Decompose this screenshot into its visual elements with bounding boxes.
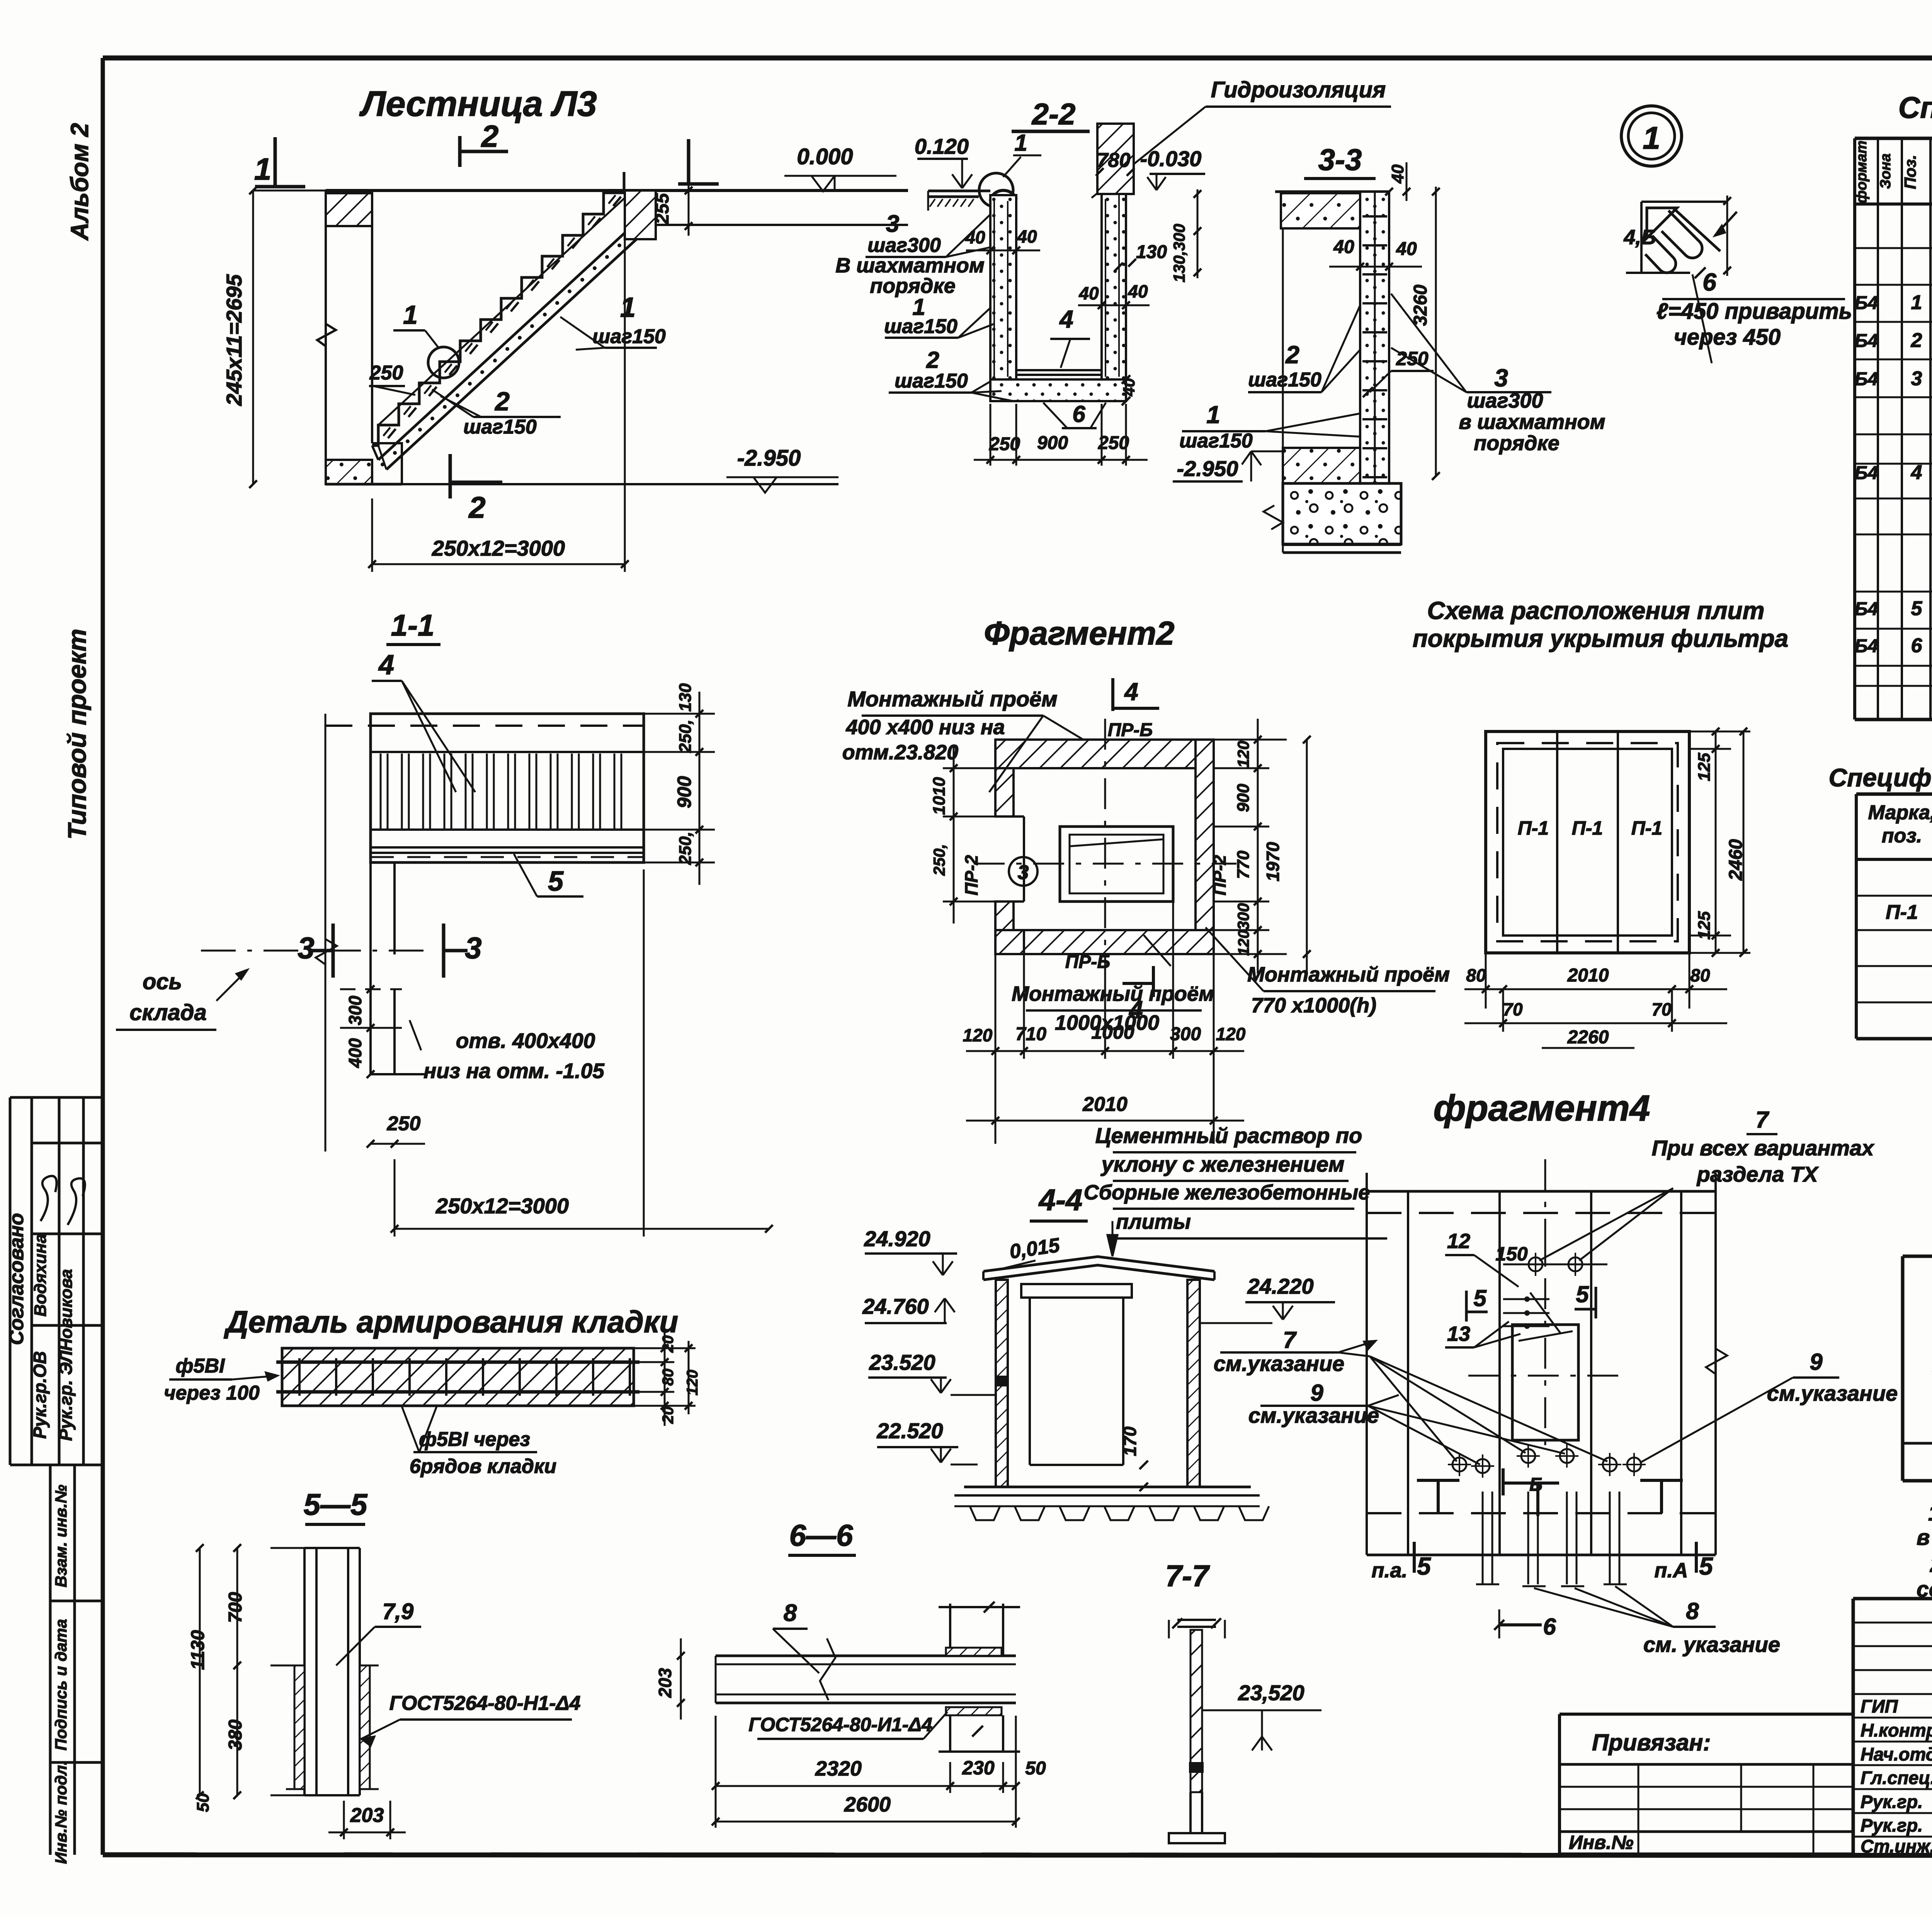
svg-text:6: 6: [1072, 401, 1085, 427]
svg-text:2260: 2260: [1567, 1027, 1609, 1048]
stair: label 1 шаг150 right: [560, 292, 666, 350]
stair: label 2 шаг150: [432, 387, 561, 438]
svg-text:230: 230: [962, 1757, 995, 1779]
stair: label 1 with detail circle: [393, 300, 459, 378]
svg-text:В шахматном: В шахматном: [835, 254, 985, 277]
masonry detail: right dims 20 80 120 20: [634, 1329, 701, 1426]
svg-text:фрагмент4: фрагмент4: [1433, 1088, 1650, 1129]
section 2-2: existing slab hatch top right: [1097, 124, 1134, 194]
svg-text:13: 13: [1447, 1322, 1470, 1345]
svg-text:П-1: П-1: [1572, 817, 1603, 839]
section 3-3 title: [1304, 143, 1376, 179]
svg-text:Рук.гр.: Рук.гр.: [1861, 1815, 1923, 1835]
svg-text:7: 7: [1755, 1107, 1769, 1133]
svg-text:ПР-2: ПР-2: [961, 855, 981, 895]
svg-text:40: 40: [1078, 283, 1099, 303]
svg-text:4-4: 4-4: [1038, 1183, 1083, 1217]
svg-text:5: 5: [1576, 1281, 1589, 1307]
svg-text:шаг150: шаг150: [592, 325, 666, 348]
fragment4: leader fan from label 7: [1338, 1352, 1607, 1461]
section 1-1: bottom dim 250x12=3000: [391, 869, 773, 1237]
svg-text:ф5ВI через: ф5ВI через: [419, 1428, 530, 1451]
svg-text:ось: ось: [143, 969, 182, 994]
svg-text:см.указание: см.указание: [1767, 1381, 1898, 1405]
svg-text:125: 125: [1695, 753, 1714, 781]
detail node 1: labels: [1623, 226, 1852, 363]
svg-text:5: 5: [548, 866, 564, 897]
stair: bottom section mark 2: [450, 454, 502, 524]
svg-text:300: 300: [1170, 1024, 1201, 1044]
section 4-4: label 7 см.указание: [1214, 1327, 1376, 1376]
stair: ground hatch bottom left: [326, 443, 402, 484]
section 1-1: ось склада label: [116, 969, 247, 1030]
svg-text:отв. 400x400: отв. 400x400: [456, 1029, 595, 1053]
svg-text:80: 80: [1466, 965, 1486, 985]
svg-text:24.760: 24.760: [862, 1294, 929, 1318]
svg-text:в соответствии с чертежАми: в соответствии с чертежАми раздела ЭЛ.: [1917, 1525, 1932, 1550]
svg-text:Рук.гр.: Рук.гр.: [1861, 1791, 1923, 1812]
masonry detail: label ф5ВI через 6рядов кладки: [402, 1407, 556, 1478]
section 2-2: dim 780 + level -0.030: [1096, 146, 1205, 190]
svg-text:Инв.№ подл.: Инв.№ подл.: [52, 1761, 70, 1864]
svg-text:Водяхина: Водяхина: [31, 1234, 50, 1317]
svg-text:3: 3: [1494, 364, 1508, 392]
svg-text:плиты: плиты: [1116, 1210, 1191, 1233]
section 2-2: label 4: [1050, 305, 1090, 368]
svg-text:5: 5: [1911, 597, 1923, 620]
svg-text:Монтажный проём: Монтажный проём: [1247, 963, 1450, 986]
svg-text:900: 900: [1037, 433, 1068, 453]
section 3-3: dim 250: [1363, 348, 1434, 397]
svg-text:3: 3: [886, 211, 899, 237]
stair steps: [372, 172, 624, 446]
svg-text:6: 6: [1911, 634, 1923, 657]
svg-text:120: 120: [1234, 741, 1252, 768]
plate layout plan: [1486, 731, 1689, 953]
spec table 2 contents: [1886, 899, 1932, 1033]
section 3-3: label 3 шаг300 в шахматном порядке: [1391, 294, 1605, 455]
svg-text:отм.23.820: отм.23.820: [842, 741, 958, 764]
svg-text:см. указание: см. указание: [1643, 1632, 1780, 1657]
svg-text:1000: 1000: [1091, 1021, 1134, 1043]
svg-text:700: 700: [225, 1592, 246, 1623]
detail node 1: circle: [1621, 106, 1682, 166]
svg-text:2: 2: [494, 387, 510, 416]
svg-text:шаг150: шаг150: [884, 315, 957, 338]
stair: thin slab top line: [378, 198, 625, 425]
svg-text:Цементный раствор по: Цементный раствор по: [1095, 1123, 1362, 1148]
svg-text:250,: 250,: [676, 720, 695, 753]
stair elevation: left wall: [317, 191, 372, 484]
svg-text:п.А: п.А: [1655, 1559, 1688, 1582]
door lintel: [1021, 1284, 1132, 1298]
svg-text:см.указание: см.указание: [1214, 1351, 1344, 1376]
fragment4: label 9 см.указание right: [1640, 1349, 1898, 1463]
svg-text:Деталь армирования кладки: Деталь армирования кладки: [224, 1305, 678, 1339]
svg-text:3: 3: [298, 931, 314, 965]
svg-text:ГИП: ГИП: [1861, 1696, 1898, 1716]
svg-text:8: 8: [1686, 1598, 1699, 1624]
stair elevation: section mark 1 (top left): [254, 137, 305, 187]
svg-text:24.220: 24.220: [1247, 1274, 1313, 1298]
fragment2: section mark 4 top: [1113, 678, 1159, 711]
svg-text:3260: 3260: [1410, 284, 1431, 326]
svg-text:ГОСТ5264-80-И1-Δ4: ГОСТ5264-80-И1-Δ4: [748, 1714, 932, 1735]
stair: dim 255 right: [652, 184, 692, 236]
svg-text:250: 250: [369, 362, 403, 384]
svg-text:770: 770: [1234, 850, 1253, 879]
svg-text:4,Б: 4,Б: [1623, 226, 1656, 249]
section 3-3: dim 40 top: [1385, 162, 1410, 201]
svg-text:0.000: 0.000: [797, 144, 853, 169]
svg-text:120: 120: [1235, 930, 1252, 956]
svg-text:22.520: 22.520: [876, 1419, 943, 1443]
fragment4: bottom anchor stems: [1476, 1492, 1627, 1586]
svg-text:Взам. инв.№: Взам. инв.№: [52, 1485, 70, 1587]
section 2-2: bottom dots + label 6: [1043, 401, 1106, 428]
section 4-4 title: [1030, 1183, 1088, 1221]
spec table 1 contents: [1855, 218, 1932, 716]
fragment4: small rebar marks near 5: [1503, 1293, 1561, 1334]
section 2-2: dims 40 40 right wall + 130 + 130,300: [1078, 189, 1201, 309]
svg-text:Поз.: Поз.: [1901, 155, 1919, 189]
svg-text:П-1: П-1: [1631, 817, 1662, 839]
svg-text:Схема расположения плит: Схема расположения плит: [1427, 597, 1764, 624]
svg-text:4: 4: [1911, 461, 1922, 484]
detail node 1: corner angle with rebar hooks: [1626, 196, 1737, 276]
svg-text:покрытия укрытия фильтра: покрытия укрытия фильтра: [1413, 624, 1789, 652]
svg-text:Б4: Б4: [1855, 369, 1878, 390]
fragment4: label при всех вариантах раздела ТХ: [1539, 1107, 1875, 1260]
svg-text:80: 80: [660, 1369, 677, 1386]
svg-text:1: 1: [1014, 130, 1027, 156]
svg-text:203: 203: [655, 1668, 675, 1698]
svg-text:Нач.отд.: Нач.отд.: [1861, 1744, 1932, 1764]
section 2-2: label 1 + leader: [1003, 130, 1041, 177]
svg-text:Типовой проект: Типовой проект: [63, 629, 91, 840]
svg-text:710: 710: [1015, 1024, 1046, 1044]
svg-text:300: 300: [345, 995, 365, 1025]
svg-text:23.520: 23.520: [869, 1350, 935, 1374]
svg-text:2.Спецификацию на трубы поз.7,: 2.Спецификацию на трубы поз.7,8,9 см.л.1…: [1930, 1552, 1932, 1577]
fragment2: монтажный проём 770x1000(h) label right: [1206, 927, 1450, 1017]
section 1-1: dim 250 bottom: [367, 1112, 425, 1148]
svg-text:шаг150: шаг150: [1179, 430, 1253, 452]
dim line right: [1726, 196, 1728, 276]
section 5-5: column plan: [286, 1548, 379, 1795]
svg-text:20: 20: [660, 1335, 677, 1353]
section 7-7: column: [1169, 1618, 1225, 1843]
section 5-5 title: [304, 1487, 368, 1524]
svg-text:130,300: 130,300: [1170, 224, 1188, 282]
fragment2: bottom dims 120 710 1000 300 120: [963, 902, 1246, 1144]
section 2-2 title: [1012, 97, 1090, 131]
table: Привязан: [1560, 1714, 1853, 1854]
svg-text:Б4: Б4: [1855, 331, 1878, 351]
section 2-2: dim 40 bottom right: [1120, 375, 1138, 405]
svg-text:Фрагмент2: Фрагмент2: [984, 615, 1174, 652]
svg-text:Рук.гр. ЭЛ: Рук.гр. ЭЛ: [56, 1350, 76, 1441]
svg-text:5: 5: [1473, 1285, 1487, 1311]
svg-text:23,520: 23,520: [1238, 1681, 1304, 1705]
svg-text:12: 12: [1447, 1230, 1470, 1253]
svg-text:Спецификацияк схеме расположе: Спецификацияк схеме расположения укрытия…: [1828, 763, 1932, 792]
section 6-6: beam: [716, 1638, 1016, 1703]
svg-text:70: 70: [1503, 999, 1523, 1019]
fragment4: plan outline: [1367, 1173, 1716, 1555]
svg-text:250: 250: [1098, 433, 1129, 453]
svg-text:300: 300: [1234, 903, 1252, 930]
svg-text:6: 6: [1702, 268, 1716, 296]
svg-text:Альбом 2: Альбом 2: [66, 123, 94, 241]
section 1-1: dims 300 400 + отв label: [340, 985, 605, 1083]
svg-text:ГОСТ5264-80-Н1-Δ4: ГОСТ5264-80-Н1-Δ4: [389, 1692, 581, 1715]
svg-text:1010: 1010: [930, 777, 949, 815]
svg-text:2: 2: [481, 119, 499, 153]
section 2-2: left floor line with hatch ticks: [928, 191, 990, 211]
section 2-2: right wall with dots: [1102, 166, 1132, 379]
section 2-2: dims 40 40 left wall: [965, 226, 1040, 254]
svg-text:4: 4: [1128, 996, 1143, 1024]
svg-text:через 100: через 100: [164, 1382, 260, 1404]
svg-text:250x12=3000: 250x12=3000: [435, 1194, 569, 1218]
svg-text:4: 4: [1124, 678, 1138, 706]
svg-text:40: 40: [1333, 237, 1354, 257]
svg-text:-0.030: -0.030: [1140, 146, 1202, 171]
section 6-6: upper bracket: [939, 1602, 1020, 1656]
section 1-1: axis склада dash-dot + 3 section marks: [201, 924, 482, 978]
svg-text:Подпись и дата: Подпись и дата: [52, 1619, 70, 1750]
svg-text:шаг300: шаг300: [867, 234, 941, 257]
plate plan dims: [1464, 728, 1750, 1048]
fragment4: label 8 см. указание bottom: [1534, 1586, 1780, 1657]
fragment4: inner proem rectangle: [1512, 1325, 1578, 1440]
section 7-7: level 23,520: [1202, 1681, 1321, 1750]
section 1-1: break mark on dim line: [316, 939, 337, 964]
svg-text:120: 120: [963, 1025, 993, 1045]
section 4-4: walls: [996, 1280, 1200, 1487]
svg-text:40: 40: [1388, 164, 1407, 184]
svg-text:70: 70: [1651, 999, 1672, 1019]
fragment2: bottom labels монтажный проём 1000х1000: [1012, 935, 1214, 1034]
left stamp column (Взам.инв / Подпись и дата / Инв.№ подл.): [50, 1465, 103, 1864]
stair elevation: upper landing slab lines: [326, 191, 908, 225]
svg-text:1: 1: [403, 300, 418, 330]
section 5-5: dims: [188, 1544, 406, 1839]
section 2-2: left wall with dots: [990, 195, 1016, 379]
rebar hook upper: [1662, 211, 1702, 258]
svg-text:170: 170: [1120, 1426, 1140, 1456]
svg-text:шаг150: шаг150: [1248, 369, 1321, 391]
approval corner table (Согласовано): [5, 1097, 103, 1465]
svg-text:250,: 250,: [930, 844, 948, 876]
svg-text:При всех вариантах: При всех вариантах: [1652, 1136, 1875, 1160]
svg-text:900: 900: [673, 776, 695, 808]
svg-text:Б4: Б4: [1855, 293, 1878, 313]
fragment2: plan walls: [995, 740, 1214, 954]
section 3-3: dim 3260 right: [1410, 187, 1440, 480]
svg-text:50: 50: [194, 1793, 213, 1812]
svg-text:1: 1: [1206, 401, 1220, 429]
svg-text:400 х400 низ на: 400 х400 низ на: [845, 716, 1005, 739]
svg-text:ПР-Б: ПР-Б: [1108, 720, 1153, 740]
stair slab (inclined band with rebar dots): [372, 218, 650, 469]
fragment4: п.А marks and 5 section cuts: [1371, 1542, 1713, 1582]
section 2-2: label 2 шаг150: [889, 347, 1013, 401]
svg-text:Рук.гр.ОВ: Рук.гр.ОВ: [30, 1351, 50, 1439]
svg-text:2010: 2010: [1567, 965, 1609, 986]
section 1-1: top slab band with vertical planks: [325, 714, 644, 862]
svg-text:1: 1: [1643, 121, 1660, 156]
svg-text:5: 5: [1417, 1552, 1431, 1580]
svg-text:5: 5: [1699, 1552, 1713, 1580]
table: Спецификация на лестницу Л3: [1898, 90, 1932, 124]
fragment4: right break mark: [1706, 1349, 1727, 1374]
svg-text:П-1: П-1: [1518, 817, 1549, 839]
svg-text:7-7: 7-7: [1165, 1559, 1210, 1593]
section 3-3: wall with ladder rebar: [1283, 192, 1389, 553]
section 4-4: notes above (цементный раствор...): [1084, 1123, 1387, 1256]
stair: left dim line 245x11=2695: [222, 187, 328, 488]
svg-text:Гидроизоляция: Гидроизоляция: [1211, 77, 1386, 102]
section 2-2: level 0.120: [915, 134, 972, 188]
fragment4: labels 12 150 5 13: [1445, 1229, 1596, 1347]
stair: level -2.950: [326, 446, 838, 493]
fragment2: ПР labels: [961, 720, 1230, 972]
svg-text:ф5ВI: ф5ВI: [176, 1355, 225, 1377]
svg-text:400: 400: [345, 1038, 365, 1068]
svg-text:Согласовано: Согласовано: [5, 1213, 28, 1345]
section 3-3: ground hatch left of wall: [1283, 448, 1360, 483]
svg-text:в шахматном: в шахматном: [1459, 410, 1605, 434]
svg-text:4: 4: [378, 650, 394, 680]
svg-text:8: 8: [784, 1600, 797, 1626]
svg-text:6—6: 6—6: [789, 1518, 853, 1552]
svg-text:5—5: 5—5: [304, 1487, 368, 1521]
section 3-3: dims 40 40: [1329, 237, 1422, 270]
svg-text:3: 3: [1911, 367, 1922, 390]
svg-text:П-1: П-1: [1886, 901, 1918, 924]
svg-text:1: 1: [1911, 291, 1922, 314]
section 1-1 title: [386, 608, 440, 645]
svg-text:3: 3: [465, 931, 481, 965]
svg-text:1: 1: [620, 292, 636, 323]
fragment2: section mark 4 bottom: [1122, 966, 1153, 1024]
svg-text:Гл.спец.: Гл.спец.: [1861, 1767, 1932, 1788]
svg-text:Б4: Б4: [1855, 599, 1878, 619]
wall break zigzag: [317, 324, 336, 346]
svg-text:250: 250: [989, 434, 1020, 454]
svg-text:ℓ=450 приварить: ℓ=450 приварить: [1656, 299, 1852, 324]
svg-text:245x11=2695: 245x11=2695: [222, 274, 246, 406]
svg-text:Б4: Б4: [1855, 636, 1878, 657]
svg-text:120: 120: [1216, 1024, 1246, 1044]
svg-text:900: 900: [1234, 784, 1253, 812]
svg-text:1: 1: [254, 152, 272, 186]
masonry detail: hatched band with mesh: [276, 1348, 639, 1406]
svg-text:2320: 2320: [815, 1757, 862, 1780]
fragment2: axis circle 3: [1009, 857, 1037, 886]
svg-text:80: 80: [1690, 965, 1710, 985]
section 2-2: bottom slab: [990, 370, 1126, 401]
fragment4: centerlines: [1468, 1159, 1623, 1453]
svg-text:1970: 1970: [1263, 842, 1283, 881]
signature squiggles: [41, 1176, 56, 1221]
svg-text:40: 40: [965, 227, 985, 247]
svg-text:Сборные железобетонные: Сборные железобетонные: [1084, 1181, 1370, 1204]
svg-text:раздела ТХ: раздела ТХ: [1696, 1162, 1819, 1186]
svg-text:Б: Б: [1529, 1475, 1543, 1495]
section 6-6: lower bracket: [939, 1707, 1020, 1752]
section 3-3: top slab hatched: [1275, 192, 1389, 228]
svg-text:Инв.№: Инв.№: [1569, 1832, 1634, 1853]
svg-text:6: 6: [1543, 1614, 1556, 1640]
stair: bottom dim 250x12=3000: [368, 234, 629, 572]
svg-text:склада: склада: [129, 1000, 207, 1025]
svg-text:2: 2: [468, 490, 485, 524]
fragment2: left dims 1010 250: [930, 716, 1043, 924]
svg-text:40: 40: [1396, 239, 1417, 259]
svg-text:низ на отм. -1.05: низ на отм. -1.05: [423, 1059, 605, 1083]
svg-text:0.120: 0.120: [915, 134, 969, 158]
svg-text:250x12=3000: 250x12=3000: [432, 536, 565, 560]
svg-text:125: 125: [1695, 911, 1714, 940]
stair: top right level 0.000: [784, 144, 896, 191]
section 3-3: foundation block: [1264, 483, 1401, 553]
svg-text:203: 203: [350, 1804, 384, 1827]
svg-text:380: 380: [225, 1720, 246, 1750]
title block (штамп): [1853, 1599, 1932, 1854]
svg-text:п.а.: п.а.: [1371, 1559, 1407, 1582]
svg-text:40: 40: [1017, 226, 1037, 247]
section 2-2: labels 3 шаг300 В шахматном порядке: [835, 211, 990, 298]
section 2-2: hydro label: [1092, 77, 1391, 198]
section 4-4: level marks: [862, 1226, 1335, 1465]
svg-text:поз.: поз.: [1882, 825, 1922, 847]
section 1-1: label 4 with leaders: [372, 650, 475, 792]
svg-text:порядке: порядке: [1474, 432, 1560, 455]
fragment4: T anchor marks: [1417, 1480, 1683, 1516]
section 4-4: roof: [983, 1257, 1214, 1280]
svg-text:формат: формат: [1854, 141, 1870, 204]
svg-text:1.Спецификацию на трубы по: 1.Спецификацию на трубы поз. 12,13 см. л…: [1928, 1501, 1932, 1526]
svg-text:130: 130: [1136, 242, 1167, 262]
svg-text:1130: 1130: [188, 1630, 208, 1670]
section 6-6 title: [788, 1518, 856, 1555]
svg-text:250: 250: [387, 1112, 421, 1135]
svg-text:Ст.инж.: Ст.инж.: [1861, 1836, 1932, 1856]
title block: signatures column labels: [1861, 1696, 1932, 1856]
fragment4: Б dim marks: [1494, 1468, 1556, 1640]
svg-text:250,: 250,: [676, 832, 695, 865]
svg-text:130: 130: [676, 683, 695, 712]
svg-text:через 450: через 450: [1674, 325, 1781, 350]
section 3-3: label 2 шаг150: [1248, 305, 1360, 392]
section 2-2: hydro hook circle: [979, 173, 1016, 207]
section 5-5: labels: [336, 1599, 580, 1746]
fragment4: leader fan from label 9: [1368, 1406, 1565, 1465]
svg-text:7: 7: [1283, 1327, 1297, 1353]
svg-text:4: 4: [1059, 305, 1073, 333]
section 6-6: dims: [655, 1638, 1046, 1828]
section 4-4: label 9 см.указание: [1248, 1380, 1399, 1427]
svg-text:Спецификация на лестницу Л3: Спецификация на лестницу Л3: [1898, 90, 1932, 124]
table: ведомость расхода стали: [1903, 1256, 1932, 1481]
svg-text:ПР-Б: ПР-Б: [1065, 952, 1111, 972]
svg-text:Б4: Б4: [1855, 463, 1878, 483]
svg-text:ПР-2: ПР-2: [1209, 855, 1230, 895]
svg-text:770 х1000(h): 770 х1000(h): [1251, 994, 1376, 1017]
